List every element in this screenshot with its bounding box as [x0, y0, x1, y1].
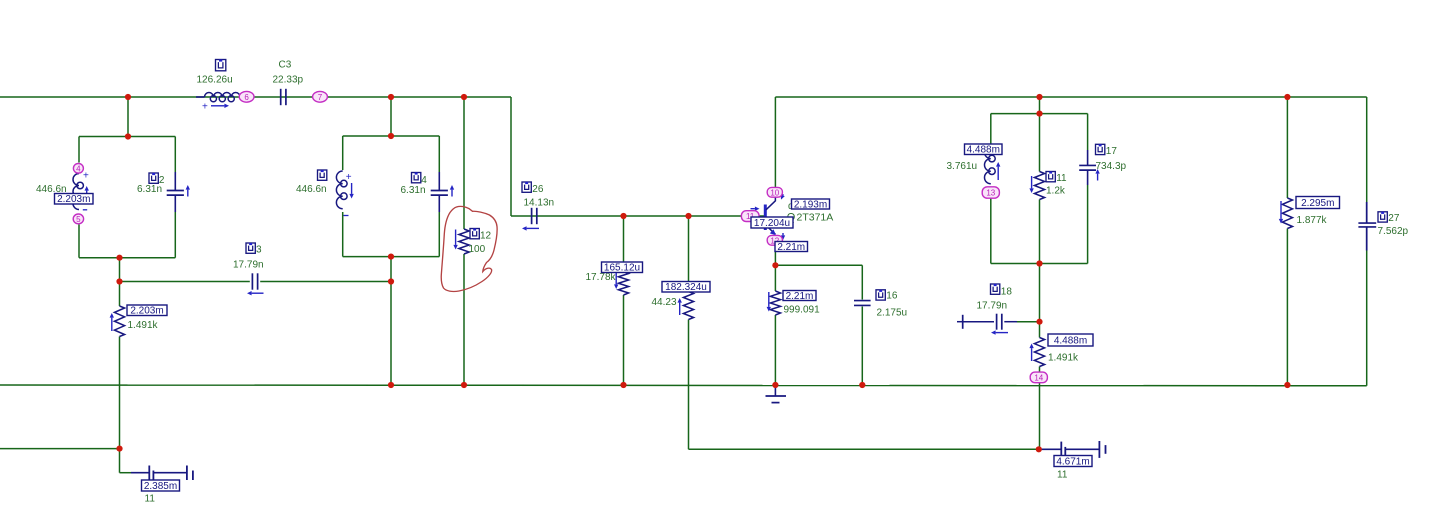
svg-text:2.193m: 2.193m [794, 199, 827, 210]
svg-text:+: + [346, 172, 352, 183]
svg-text:11: 11 [145, 494, 156, 505]
svg-text:+: + [202, 102, 208, 113]
wire emitter resistor lower [774, 315, 776, 385]
svg-text:14: 14 [1034, 373, 1043, 382]
wire R10 branch upper [1286, 97, 1288, 198]
battery V1 left [131, 472, 149, 474]
junction tank tops [125, 133, 131, 139]
svg-text:165.12u: 165.12u [604, 263, 640, 274]
svg-text:2.21m: 2.21m [786, 291, 814, 302]
transistor Q1 base arrow [751, 208, 755, 210]
wire R11 inside lower [1039, 200, 1041, 264]
svg-text:17.78k: 17.78k [586, 272, 617, 283]
wire R7 branch lower [688, 320, 690, 450]
inductor L2 label [318, 170, 327, 180]
wire emitter resistor upper [774, 265, 776, 291]
inductor L2 current arrow [351, 183, 353, 194]
wire left resistor drop lower [119, 337, 121, 449]
capacitor C3 22.33p [280, 89, 282, 105]
label R6 165.12u [602, 262, 643, 274]
capacitor C5 17.79n coupling [251, 273, 253, 289]
svg-text:3: 3 [256, 244, 262, 255]
wire tank2 bottom drop to bus [390, 257, 392, 385]
inductor L1 446.6n tank1 [73, 174, 79, 210]
svg-text:126.26u: 126.26u [197, 75, 233, 86]
wire tank1 bottom drop [119, 258, 121, 282]
transistor Q1 2T371A [764, 205, 767, 231]
svg-text:734.3p: 734.3p [1096, 161, 1127, 172]
svg-text:446.6n: 446.6n [296, 184, 327, 195]
wire tank2 box left lower [342, 212, 344, 257]
label V2 4.671m [1054, 456, 1092, 468]
resistor R12 label [470, 229, 479, 239]
capacitor C2 label [149, 173, 158, 183]
node A tank1 top tap wire [127, 97, 129, 137]
node 13 [982, 187, 999, 198]
wire left coupling rail [120, 281, 250, 283]
label Q1 2.193m [792, 199, 830, 210]
capacitor C18 arrow [996, 332, 1008, 334]
resistor R10 arrow [1280, 201, 1282, 219]
svg-text:4: 4 [76, 164, 81, 173]
wire tank2 box right lower [438, 212, 440, 257]
wire left resistor drop upper [119, 282, 121, 307]
wire battery V1 drop [119, 449, 121, 473]
svg-text:7.562p: 7.562p [1378, 226, 1409, 237]
inductor L3 arrow [997, 167, 999, 180]
node 4 [73, 164, 83, 174]
svg-text:2.21m: 2.21m [777, 242, 805, 253]
wire tank1 box left lower [78, 225, 80, 258]
inductor L5 label [216, 60, 226, 71]
label R7 182.324u [662, 282, 710, 294]
node 10 [767, 187, 782, 197]
wire bottom left rail [0, 448, 120, 450]
wire tank2 box right upper [438, 136, 440, 172]
label R9 4.488m [1048, 334, 1093, 346]
svg-text:22.33p: 22.33p [273, 75, 304, 86]
wire C18 stub [963, 321, 994, 323]
resistor R8 999.091 [770, 291, 780, 315]
resistor R10 1.877k [1282, 198, 1292, 229]
svg-text:4.488m: 4.488m [967, 145, 1000, 156]
svg-text:16: 16 [886, 290, 898, 301]
svg-text:+: + [83, 171, 89, 182]
svg-text:11: 11 [1057, 470, 1068, 481]
transistor Q1 collector arrow [782, 194, 784, 195]
wire collector riser [774, 97, 776, 188]
wire tank3 box left upper [990, 114, 992, 146]
wire tank1 box bottom [79, 257, 175, 259]
label L1 2.203m [55, 194, 94, 206]
inductor L1 current arrow [86, 191, 88, 202]
label Q1 17.204u [751, 217, 793, 229]
wire emitter to C16 horizontal [775, 264, 862, 266]
resistor R6 arrow [615, 271, 617, 284]
resistor R9 1.491k right [1034, 338, 1044, 367]
wire tank3 box left lower [990, 199, 992, 264]
svg-text:1.491k: 1.491k [1048, 352, 1079, 363]
inductor L2 446.6n tank2 [336, 171, 342, 209]
wire tank3 top tap [1039, 97, 1041, 114]
resistor R11 1.2k [1034, 172, 1044, 200]
svg-text:1.2k: 1.2k [1046, 186, 1066, 197]
wire right edge lower [1366, 228, 1368, 386]
resistor R1 1.491k left [114, 306, 124, 337]
svg-text:5: 5 [76, 215, 81, 224]
svg-text:2.175u: 2.175u [877, 308, 908, 319]
svg-text:17.204u: 17.204u [754, 218, 790, 229]
wire tank1 box right upper [174, 137, 176, 173]
junction C18 node [1036, 319, 1042, 325]
wire C16 branch lower [861, 307, 863, 386]
svg-text:17.79n: 17.79n [977, 301, 1008, 312]
svg-text:182.324u: 182.324u [665, 282, 707, 293]
wire left coupling rail right part [260, 281, 391, 283]
junction coupling rail [116, 278, 122, 284]
junction ground bus [388, 382, 394, 388]
svg-text:1.877k: 1.877k [1297, 215, 1328, 226]
wire tank1 box right lower [174, 212, 176, 258]
wire tank1 box left upper [78, 137, 80, 163]
svg-text:17.79n: 17.79n [233, 260, 264, 271]
inductor L5 126.26u [196, 96, 205, 98]
svg-text:2.203m: 2.203m [130, 306, 163, 317]
wire node14 branch upper [1039, 322, 1041, 338]
svg-text:17: 17 [1106, 146, 1118, 157]
capacitor C27 label [1378, 212, 1387, 222]
svg-text:6.31n: 6.31n [137, 184, 162, 195]
svg-text:6.31n: 6.31n [401, 185, 426, 196]
svg-text:4.671m: 4.671m [1056, 456, 1089, 467]
wire ground bus [0, 384, 1367, 387]
capacitor C26 14.13n [531, 208, 533, 224]
label R1 2.203m [127, 305, 167, 317]
wire emitter drop [774, 245, 776, 265]
node 7 [313, 91, 328, 102]
svg-text:27: 27 [1388, 213, 1400, 224]
node 5 [73, 214, 83, 224]
resistor R9 arrow [1031, 348, 1033, 361]
wire R6 branch upper [623, 216, 625, 272]
svg-text:2.385m: 2.385m [144, 481, 177, 492]
svg-text:26: 26 [532, 184, 544, 195]
junction tank bottoms [116, 255, 122, 261]
wire C18 to junction [1004, 321, 1017, 323]
capacitor C17 label [1096, 144, 1105, 154]
resistor R11 arrow [1031, 176, 1033, 188]
svg-text:100: 100 [469, 244, 486, 255]
node 12 [767, 235, 782, 245]
inductor L3 3.761u tank3 [985, 146, 991, 184]
label L3 4.488m [965, 144, 1003, 156]
svg-text:7: 7 [318, 93, 323, 102]
svg-text:11: 11 [1056, 173, 1067, 184]
capacitor C4 arrow [451, 190, 453, 197]
transistor Q1 emitter arrow [782, 233, 784, 235]
wire top bus right segment [775, 96, 1366, 98]
wire R7 branch upper [688, 216, 690, 292]
resistor R7 arrow [679, 303, 681, 315]
wire tank2 top tap [390, 97, 392, 136]
svg-text:2T371A: 2T371A [797, 212, 834, 224]
wire right edge upper [1366, 97, 1368, 222]
resistor R8 arrow [768, 292, 770, 307]
wire node14 branch lower [1039, 367, 1041, 450]
svg-text:3.761u: 3.761u [947, 161, 978, 172]
capacitor C17 734.3p tank3 [1087, 150, 1089, 165]
svg-text:12: 12 [480, 231, 492, 242]
wire tank2 box bottom [343, 256, 440, 258]
svg-text:14.13n: 14.13n [524, 198, 555, 209]
svg-text:6: 6 [244, 93, 249, 102]
wire top bus left segment [0, 96, 511, 98]
capacitor C2 arrow [187, 190, 189, 197]
svg-text:18: 18 [1001, 287, 1013, 298]
junction bottom rails [116, 446, 122, 452]
wire R12 branch lower [463, 254, 465, 385]
node 6 [239, 91, 254, 102]
node 11 [741, 211, 759, 222]
capacitor C17 arrow [1097, 174, 1099, 181]
wire corner x511 down to mid rail [510, 97, 512, 216]
capacitor C16 2.175u [854, 300, 871, 302]
wire tank3 box top [991, 113, 1088, 115]
wire tank3 box right lower [1087, 185, 1089, 264]
capacitor C5 arrow [252, 292, 264, 294]
wire R10 branch lower [1286, 229, 1288, 386]
wire tank3 bottom drop [1039, 264, 1041, 322]
resistor R11 label [1046, 172, 1055, 182]
svg-text:2.203m: 2.203m [57, 194, 90, 205]
battery V2 right [1039, 448, 1062, 450]
label V1 2.385m [142, 480, 180, 492]
svg-text:999.091: 999.091 [784, 304, 821, 315]
junction mid rail [620, 213, 626, 219]
capacitor C27 7.562p [1366, 222, 1368, 223]
wire R12 branch upper [463, 97, 465, 229]
capacitor C5 label [246, 243, 255, 253]
capacitor C16 label [876, 290, 885, 300]
wire tank2 box left upper [342, 136, 344, 170]
label R8 2.21m [783, 291, 816, 302]
svg-text:2.295m: 2.295m [1301, 198, 1334, 209]
svg-text:13: 13 [986, 189, 995, 198]
label Q1 2.21m [775, 242, 808, 253]
svg-text:44.23: 44.23 [652, 297, 677, 308]
svg-text:C3: C3 [279, 60, 292, 71]
node 14 [1030, 372, 1047, 383]
svg-text:1.491k: 1.491k [128, 320, 159, 331]
resistor R6 17.78k [618, 272, 628, 296]
junction emitter node [772, 262, 778, 268]
capacitor C18 17.79n [996, 314, 998, 330]
svg-text:4.488m: 4.488m [1054, 335, 1087, 346]
svg-text:10: 10 [770, 188, 779, 197]
resistor R12 arrow [455, 230, 457, 245]
wire R11 inside upper [1039, 114, 1041, 172]
label R10 2.295m [1296, 197, 1340, 209]
capacitor C4 6.31n tank2 [438, 172, 440, 190]
capacitor C2 6.31n tank1 [174, 172, 176, 190]
resistor R12 100 [459, 229, 469, 254]
capacitor C18 label [991, 284, 1000, 294]
resistor R1 arrow [111, 318, 113, 331]
red annotation scribble around R12 [441, 206, 497, 291]
capacitor C4 label [412, 173, 421, 183]
wire lower return rail [689, 448, 1039, 450]
wire C16 branch upper [861, 265, 863, 299]
wire tank3 box right upper [1087, 114, 1089, 150]
ground symbol [774, 385, 776, 396]
wire R6 branch lower [623, 295, 625, 385]
wire tank3 box bottom [991, 263, 1088, 265]
wire mid rail to transistor base [511, 215, 765, 217]
wire battery V1 lead [120, 472, 132, 474]
wire tank2 box top [343, 135, 440, 137]
wire tank1 box top [79, 136, 175, 138]
capacitor C26 label [522, 182, 531, 192]
capacitor C26 arrow [527, 227, 539, 229]
resistor R7 44.23 [683, 292, 693, 320]
junction dots top bus [125, 94, 131, 100]
